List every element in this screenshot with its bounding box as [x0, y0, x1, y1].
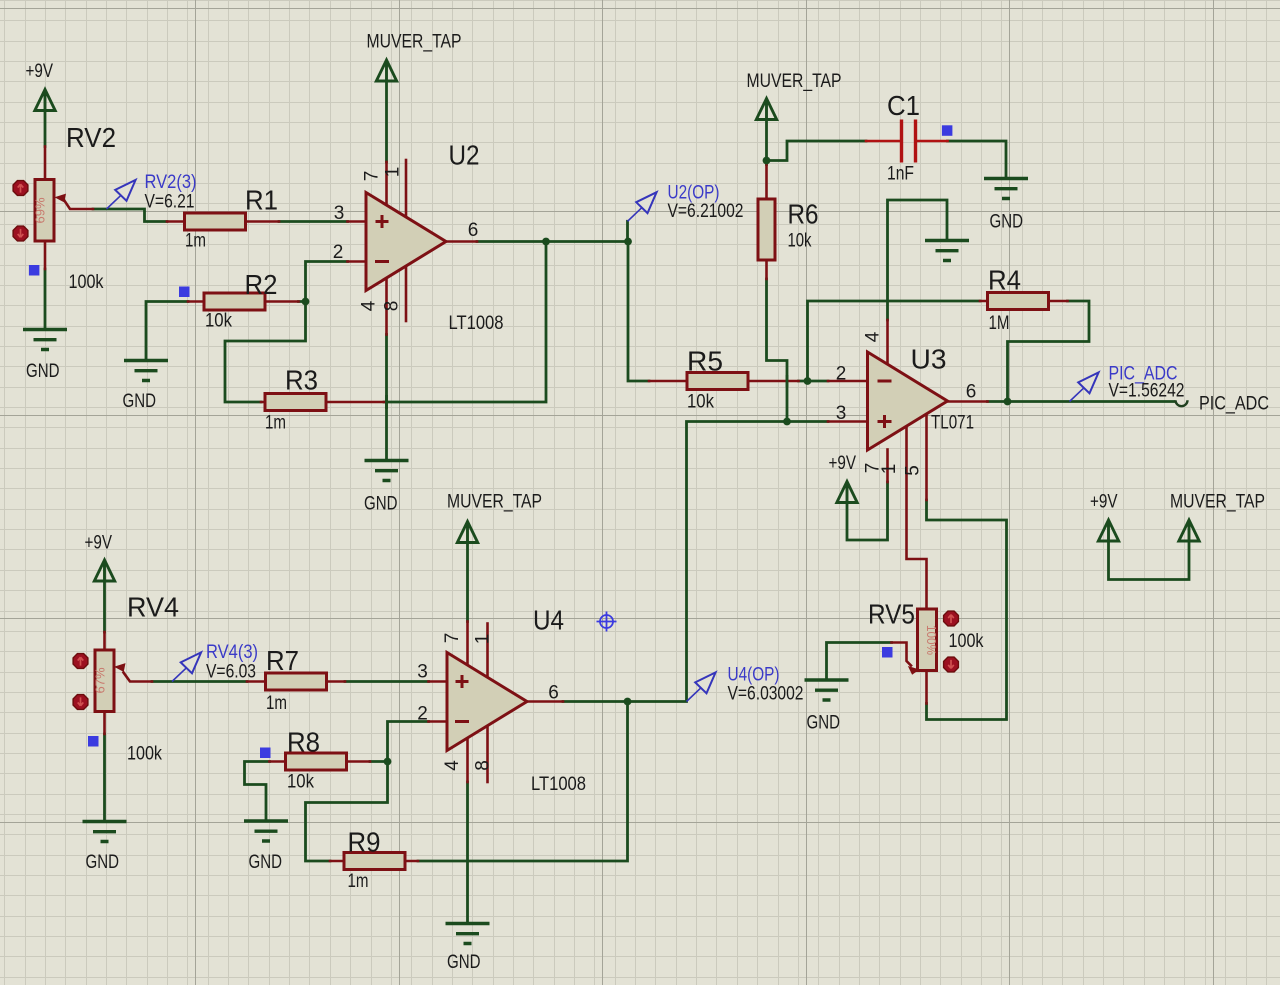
junction U2 out A: [542, 238, 550, 246]
wire C1 leads: [866, 140, 948, 143]
svg-text:U3: U3: [911, 344, 947, 375]
pin 1 U4: [486, 624, 489, 678]
junction U3 out: [1004, 398, 1012, 406]
wire U2 pin4 crossing overdraw: [385, 395, 388, 409]
svg-text:2: 2: [417, 704, 428, 725]
svg-text:R7: R7: [266, 645, 299, 676]
svg-text:MUVER_TAP: MUVER_TAP: [747, 71, 842, 92]
svg-text:4: 4: [359, 300, 380, 311]
wire RV2 top lead: [44, 147, 47, 181]
svg-text:TL071: TL071: [931, 413, 974, 434]
svg-text:C1: C1: [887, 90, 920, 121]
wire U3 out to PIC_ADC terminal: [988, 400, 1175, 403]
node marker RV2: [29, 265, 40, 276]
pin 6 U4 output lead: [527, 700, 563, 703]
hex terminal RV4 top: [73, 654, 88, 669]
svg-text:1m: 1m: [348, 871, 369, 892]
svg-text:GND: GND: [123, 391, 157, 412]
potentiometer RV4: [93, 650, 126, 712]
wire U3 pin7 to +9V: [847, 482, 888, 540]
svg-text:6: 6: [468, 220, 479, 241]
wire R7 leads: [247, 680, 345, 683]
wire probe stub at U2 out: [626, 221, 629, 241]
resistor R9: [344, 853, 405, 870]
probe U2(OP): [628, 192, 657, 221]
wire R2/R3 feedback jog: [225, 302, 306, 403]
svg-text:V=6.21: V=6.21: [145, 192, 195, 213]
svg-text:10k: 10k: [205, 311, 232, 332]
wire +9V to MUVER_TAP bottom right pair: [1109, 541, 1190, 580]
svg-text:5: 5: [903, 465, 924, 476]
wire R6 leads: [765, 165, 768, 280]
pin 3 U2: [348, 220, 367, 223]
probe RV2(3): [107, 180, 136, 209]
resistor R7: [266, 673, 327, 690]
wire R6 branch crossing overdraw: [786, 375, 789, 387]
wire R9 leads: [330, 860, 418, 863]
pin 7 U4: [466, 622, 469, 666]
wire R8 node up to U4 pin2: [388, 722, 429, 762]
wire +9V to RV4 top: [103, 582, 106, 632]
power MUVER_TAP right: [1179, 520, 1199, 541]
probe PIC_ADC: [1070, 372, 1099, 401]
resistor R8: [286, 753, 347, 770]
svg-text:GND: GND: [86, 852, 120, 873]
wire RV4 bottom to GND: [103, 734, 106, 821]
hex terminal RV5 bottom: [944, 657, 959, 672]
op-amp U4: [447, 653, 527, 751]
wire RV5 wiper lead: [892, 643, 912, 666]
svg-text:R4: R4: [988, 265, 1021, 296]
origin marker: [597, 612, 617, 632]
pin 7 U3: [886, 450, 889, 483]
ground RV4: [83, 822, 127, 842]
power MUVER_TAP U4: [457, 522, 477, 543]
wire R1 leads: [167, 220, 279, 223]
wire R2 leads: [188, 300, 299, 303]
ground U2 pin4: [365, 461, 409, 481]
svg-text:RV2(3): RV2(3): [145, 172, 197, 193]
wire R6 bottom jog to pin3 node: [767, 279, 788, 422]
wire RV2 bottom lead: [44, 241, 47, 269]
power MUVER_TAP U2: [376, 60, 396, 81]
ground RV2: [23, 330, 67, 350]
svg-text:100k: 100k: [127, 744, 162, 765]
ground C1: [984, 179, 1028, 199]
svg-text:LT1008: LT1008: [531, 774, 586, 795]
svg-text:V=1.56242: V=1.56242: [1109, 381, 1185, 402]
pin 2 U2: [348, 260, 367, 263]
wire U2 out down to R5: [628, 242, 649, 382]
svg-text:MUVER_TAP: MUVER_TAP: [447, 492, 542, 513]
pin 4 U2: [385, 278, 388, 335]
hex terminal RV4 bottom: [73, 695, 88, 710]
svg-text:GND: GND: [364, 494, 398, 515]
wire MUVER_TAP arrow to U2 pin7: [385, 81, 388, 162]
svg-text:100k: 100k: [949, 631, 984, 652]
svg-text:U4: U4: [533, 605, 564, 636]
wire U4 output to U3 pin3 riser: [563, 422, 787, 702]
power +9V right: [1098, 520, 1118, 541]
power +9V RV4: [94, 560, 114, 581]
wire R9 left jog to R8 node: [306, 762, 388, 862]
svg-text:LT1008: LT1008: [449, 313, 504, 334]
svg-text:1M: 1M: [989, 313, 1010, 334]
power MUVER_TAP R6: [756, 99, 776, 120]
wire RV4 wiper lead: [124, 673, 153, 682]
svg-text:100%: 100%: [924, 625, 939, 655]
pin 4 U3: [886, 320, 889, 365]
probe RV4(3): [172, 652, 201, 681]
wire R4 leads: [980, 300, 1068, 303]
junction R6 top: [763, 157, 771, 165]
svg-text:6: 6: [548, 683, 559, 704]
svg-text:1m: 1m: [266, 693, 287, 714]
node marker RV4: [88, 736, 99, 747]
wire RV4 wiper to R7: [152, 680, 247, 683]
ground U4 pin4: [446, 924, 490, 944]
svg-text:U4(OP): U4(OP): [728, 665, 780, 686]
svg-text:R9: R9: [348, 827, 381, 858]
wire R5 leads: [649, 380, 799, 383]
resistor R3: [265, 394, 326, 411]
svg-text:2: 2: [333, 242, 344, 263]
svg-text:100k: 100k: [69, 272, 104, 293]
power +9V U3: [837, 482, 857, 503]
svg-text:8: 8: [382, 301, 403, 312]
svg-text:2: 2: [836, 364, 847, 385]
node marker C1: [942, 125, 953, 136]
probe U4(OP): [687, 672, 716, 701]
svg-text:1m: 1m: [265, 413, 286, 434]
junction U3 pin3: [783, 418, 791, 426]
ground U3 pin4: [925, 241, 969, 261]
wire RV5 bottom lead: [925, 671, 928, 704]
capacitor C1: [902, 120, 916, 163]
svg-text:U2: U2: [449, 140, 480, 171]
junction U2 out B: [624, 238, 632, 246]
hex terminal RV2 bottom: [13, 226, 28, 241]
wire U4 out node down to R9: [418, 702, 628, 862]
svg-text:MUVER_TAP: MUVER_TAP: [367, 32, 462, 53]
svg-text:MUVER_TAP: MUVER_TAP: [1170, 492, 1265, 513]
svg-text:GND: GND: [447, 952, 481, 973]
svg-text:7: 7: [442, 633, 463, 644]
wire RV2 wiper lead: [64, 200, 93, 209]
wire R3 right to U2 output: [384, 242, 546, 403]
wire R2 right to U2 pin2: [299, 262, 348, 302]
pin 3 U4: [429, 680, 448, 683]
svg-text:+9V: +9V: [829, 453, 857, 474]
pin 6 U3 output lead: [948, 400, 988, 403]
svg-text:RV4(3): RV4(3): [206, 642, 258, 663]
svg-text:RV4: RV4: [127, 592, 179, 623]
svg-text:1: 1: [879, 464, 900, 475]
resistor R2: [204, 293, 265, 310]
pin 6 U2 output lead: [446, 240, 477, 243]
pin 4 U4: [466, 738, 469, 782]
resistor R6: [758, 199, 775, 260]
svg-text:69%: 69%: [33, 197, 48, 223]
svg-text:10k: 10k: [788, 231, 812, 252]
svg-text:RV5: RV5: [868, 599, 915, 630]
pin 3 U3: [828, 420, 868, 423]
svg-text:R8: R8: [287, 727, 320, 758]
wire RV2 bottom to GND: [44, 269, 47, 330]
wire R8 leads: [270, 760, 371, 763]
terminal PIC_ADC: [1176, 400, 1188, 406]
potentiometer RV5: [908, 609, 939, 675]
wire R6 top to MUVER_TAP arrow: [765, 120, 768, 165]
wire R2 left to GND: [146, 302, 188, 361]
svg-text:V=6.03: V=6.03: [206, 662, 256, 683]
wire R4 right down to U3 out: [1008, 301, 1090, 402]
svg-text:R3: R3: [285, 365, 318, 396]
wire RV2 wiper to R1: [93, 209, 167, 222]
node marker R8: [260, 748, 271, 759]
wire U2 output node: [477, 240, 628, 243]
svg-text:67%: 67%: [93, 667, 108, 693]
node marker RV5: [882, 647, 893, 658]
ground RV5: [805, 680, 849, 700]
svg-text:PIC_ADC: PIC_ADC: [1199, 394, 1269, 415]
ground R8: [244, 821, 288, 841]
svg-text:1: 1: [383, 167, 404, 178]
svg-text:7: 7: [362, 171, 383, 182]
wire +9V to RV2: [44, 111, 47, 147]
node marker R2: [179, 287, 190, 298]
svg-text:3: 3: [836, 403, 847, 424]
wire node to U3 pin3: [787, 420, 828, 423]
svg-text:+9V: +9V: [26, 61, 54, 82]
svg-text:V=6.21002: V=6.21002: [668, 201, 744, 222]
hex terminal RV2 top: [13, 181, 28, 196]
svg-text:V=6.03002: V=6.03002: [728, 684, 804, 705]
junction U4 out: [624, 698, 632, 706]
pin 8 U4: [486, 726, 489, 782]
junction R2 right: [302, 298, 310, 306]
potentiometer RV2: [33, 180, 67, 242]
svg-text:GND: GND: [26, 361, 60, 382]
svg-text:1m: 1m: [185, 231, 206, 252]
pin 8 U2: [405, 266, 408, 321]
svg-text:10k: 10k: [287, 772, 314, 793]
wire R5 right to node: [799, 380, 829, 383]
svg-text:+9V: +9V: [85, 533, 113, 554]
junction U3 pin2: [804, 377, 812, 385]
wire RV5 wiper to GND: [827, 643, 892, 681]
svg-text:1nF: 1nF: [887, 164, 914, 185]
svg-text:4: 4: [442, 760, 463, 771]
wire node to C1 left: [767, 141, 867, 161]
svg-text:4: 4: [863, 331, 884, 342]
resistor R4: [988, 293, 1049, 310]
svg-text:RV2: RV2: [66, 122, 116, 153]
wire U4 pin4 to GND: [466, 782, 469, 924]
pin 1 U2: [405, 160, 408, 217]
pin 2 U3: [828, 380, 868, 383]
op-amp U3: [868, 352, 948, 450]
wire U2 pin4 to GND: [385, 335, 388, 461]
wire node up to R4 left: [808, 301, 981, 381]
wire R3 leads: [261, 401, 384, 404]
wire R8 right to node: [370, 760, 388, 763]
wire C1 right to GND: [948, 141, 1007, 179]
pin 2 U4: [429, 720, 448, 723]
svg-text:GND: GND: [249, 852, 283, 873]
svg-text:1: 1: [473, 634, 494, 645]
wire R8 left to GND: [245, 762, 270, 822]
svg-text:GND: GND: [807, 713, 841, 734]
wire MUVER_TAP arrow to U4 pin7: [466, 543, 469, 622]
pin 5 U3: [925, 415, 928, 501]
ground R2: [124, 361, 168, 381]
svg-text:R2: R2: [245, 269, 278, 300]
wire U3 pin5 loop to RV5 bottom: [927, 500, 1007, 720]
power +9V RV2: [35, 90, 55, 111]
wire RV4 leads: [103, 632, 106, 734]
hex terminal RV5 top: [944, 611, 959, 626]
svg-text:R1: R1: [245, 185, 278, 216]
svg-text:R6: R6: [788, 199, 819, 230]
svg-text:GND: GND: [990, 212, 1024, 233]
resistor R1: [185, 213, 246, 230]
resistor R5: [687, 373, 748, 390]
op-amp U2: [366, 193, 446, 291]
wire R7 to U4 pin3: [345, 680, 429, 683]
svg-text:R5: R5: [687, 346, 723, 377]
svg-text:8: 8: [473, 760, 494, 771]
svg-text:3: 3: [417, 662, 428, 683]
svg-text:6: 6: [966, 382, 977, 403]
wire R1 to U2 pin3: [279, 220, 348, 223]
junction R8 right: [384, 758, 392, 766]
svg-text:10k: 10k: [687, 392, 714, 413]
svg-text:+9V: +9V: [1090, 492, 1118, 513]
pin 1 U3 to RV5 top: [907, 427, 927, 609]
wire U3 pin4 to GND: [888, 200, 948, 320]
pin 7 U2: [385, 162, 388, 205]
svg-text:3: 3: [334, 203, 345, 224]
